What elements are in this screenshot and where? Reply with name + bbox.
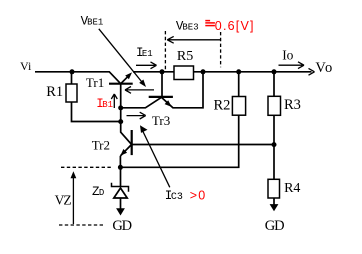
svg-text:Io: Io <box>282 47 293 62</box>
svg-text:GD: GD <box>265 218 284 234</box>
svg-text:IE1: IE1 <box>136 46 153 60</box>
svg-text:VZ: VZ <box>55 192 72 207</box>
svg-text:VBE3: VBE3 <box>176 20 199 34</box>
svg-text:>0: >0 <box>190 189 207 203</box>
svg-text:Tr3: Tr3 <box>152 113 170 128</box>
svg-text:R1: R1 <box>46 84 63 100</box>
svg-text:GD: GD <box>112 218 131 234</box>
svg-text:IB1: IB1 <box>96 97 113 111</box>
svg-text:VBE1: VBE1 <box>81 15 104 29</box>
svg-text:Tr1: Tr1 <box>86 75 104 90</box>
svg-text:ZD: ZD <box>92 185 104 199</box>
svg-text:R3: R3 <box>284 97 301 113</box>
svg-text:R5: R5 <box>177 49 193 64</box>
svg-text:Vi: Vi <box>20 59 32 73</box>
svg-text:0.6[V]: 0.6[V] <box>215 19 255 33</box>
svg-text:Tr2: Tr2 <box>92 137 110 152</box>
svg-text:Vo: Vo <box>315 60 333 76</box>
svg-text:R4: R4 <box>284 181 300 196</box>
svg-text:IC3: IC3 <box>165 189 183 203</box>
svg-text:R2: R2 <box>214 98 231 114</box>
